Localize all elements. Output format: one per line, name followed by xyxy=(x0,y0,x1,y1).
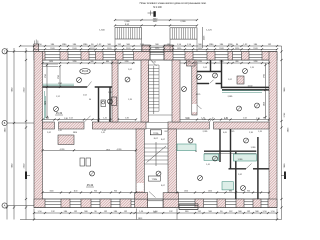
fixture small left xyxy=(80,158,85,166)
partition H right apt bath xyxy=(197,83,209,85)
bottom wall inner face xyxy=(43,198,270,200)
svg-text:1,125: 1,125 xyxy=(196,94,201,96)
svg-text:1520: 1520 xyxy=(90,48,94,50)
stair wall lower-left xyxy=(136,129,144,193)
flue block small top xyxy=(187,60,196,66)
chimney pier top-left xyxy=(34,44,39,52)
vent circle (184,89) xyxy=(182,87,187,92)
svg-text:3,130: 3,130 xyxy=(248,86,253,88)
svg-text:2762: 2762 xyxy=(45,74,47,78)
partition wall x192 xyxy=(192,60,197,115)
svg-text:1520: 1520 xyxy=(177,48,181,50)
svg-text:1280: 1280 xyxy=(254,61,258,63)
vent circle (215,158.5) xyxy=(213,156,218,161)
svg-text:2,80: 2,80 xyxy=(64,118,68,120)
kitchen counter teal upper-left xyxy=(43,85,74,87)
svg-text:3810: 3810 xyxy=(73,132,77,134)
svg-text:2420: 2420 xyxy=(45,101,47,105)
secondary top dim row xyxy=(34,48,277,50)
porch railing right xyxy=(170,28,197,39)
vent circle (245,71) xyxy=(243,69,248,74)
svg-text:880: 880 xyxy=(229,190,232,192)
interior dim row above bottom wall xyxy=(43,192,137,194)
svg-text:1490: 1490 xyxy=(49,61,53,63)
svg-text:1520: 1520 xyxy=(126,48,130,50)
svg-text:1520: 1520 xyxy=(235,48,239,50)
partition V lower right 3 xyxy=(257,137,259,199)
svg-text:1,380: 1,380 xyxy=(251,147,256,149)
bottom dim chain 1 xyxy=(34,212,277,214)
kitchen counter teal xyxy=(222,90,262,92)
door leaf entrance xyxy=(149,192,156,198)
door leaf left apt xyxy=(87,82,91,88)
svg-text:1520: 1520 xyxy=(107,48,111,50)
top wall piers xyxy=(34,52,45,61)
interior vertical dim right room xyxy=(265,63,267,119)
porch side stub left xyxy=(142,45,150,52)
partition V left apt 2 xyxy=(109,87,111,122)
vent circle (56,109) xyxy=(54,107,59,112)
vent circle (215,75.5) xyxy=(213,73,218,78)
axis circle А xyxy=(2,203,7,208)
svg-text:1,82: 1,82 xyxy=(125,118,129,120)
vent circle (158.5,173.5) xyxy=(156,171,161,176)
svg-text:4,330: 4,330 xyxy=(117,149,122,151)
svg-text:2762: 2762 xyxy=(58,75,60,79)
kitchen wall right apt xyxy=(222,86,269,88)
vent circle (199,77) xyxy=(197,75,202,80)
svg-text:1280: 1280 xyxy=(125,61,129,63)
svg-text:580: 580 xyxy=(188,61,191,63)
door leaf mid wall 2 xyxy=(210,117,214,122)
svg-text:90: 90 xyxy=(89,99,91,101)
svg-text:880: 880 xyxy=(106,61,109,63)
vent circle (200,178) xyxy=(198,176,203,181)
door leaf right apt bath xyxy=(210,80,214,84)
kitchen unit C xyxy=(233,154,256,161)
stair label box 2 xyxy=(148,176,160,181)
svg-text:1600: 1600 xyxy=(50,190,54,192)
svg-text:4,05: 4,05 xyxy=(223,132,227,134)
left dim chain outer xyxy=(6,48,8,220)
partition wall x112 xyxy=(112,60,118,122)
svg-text:1,26: 1,26 xyxy=(258,131,262,133)
interior dim row under top windows right xyxy=(180,62,269,64)
svg-text:ТП2Б: ТП2Б xyxy=(152,179,158,181)
svg-text:15,32: 15,32 xyxy=(56,112,63,115)
svg-text:1520: 1520 xyxy=(198,48,202,50)
axis circle Б xyxy=(2,120,7,125)
svg-text:300: 300 xyxy=(153,212,156,214)
svg-text:4,05: 4,05 xyxy=(224,118,228,120)
top wall outer face xyxy=(34,51,277,53)
svg-text:1,26: 1,26 xyxy=(128,99,132,101)
bottom wall windows xyxy=(45,201,61,203)
svg-text:207: 207 xyxy=(164,131,167,133)
stair label box 1 xyxy=(150,130,161,135)
svg-text:4,330: 4,330 xyxy=(60,149,65,151)
svg-text:1,500: 1,500 xyxy=(99,30,105,32)
svg-text:1520: 1520 xyxy=(219,48,223,50)
svg-text:2,52: 2,52 xyxy=(69,118,73,120)
svg-text:2,62: 2,62 xyxy=(58,130,62,132)
svg-text:1520: 1520 xyxy=(155,48,159,50)
porch platform lines between stubs xyxy=(150,46,164,48)
svg-text:1,41: 1,41 xyxy=(102,130,106,132)
partition V left apt 1 xyxy=(98,87,100,122)
svg-text:880: 880 xyxy=(236,61,239,63)
interior vertical dim left room xyxy=(59,66,61,87)
svg-text:8,07: 8,07 xyxy=(161,185,165,187)
svg-text:2420: 2420 xyxy=(263,102,265,106)
svg-text:М 1:100: М 1:100 xyxy=(153,7,162,9)
svg-text:2,980: 2,980 xyxy=(124,21,130,23)
porch edge lines xyxy=(114,39,116,52)
svg-text:580: 580 xyxy=(91,61,94,63)
vent circle (110,101.5) xyxy=(108,99,113,104)
svg-text:1280: 1280 xyxy=(198,61,202,63)
svg-text:2,36: 2,36 xyxy=(249,132,253,134)
fixture lower xyxy=(222,182,233,190)
svg-text:1520: 1520 xyxy=(50,48,54,50)
flue block right xyxy=(237,76,244,84)
partition H lower right xyxy=(204,150,256,152)
vent circle (190.5,140.5) xyxy=(188,138,193,143)
closet lines top-left xyxy=(43,63,59,65)
top wall inner face xyxy=(43,59,270,61)
svg-text:2,980: 2,980 xyxy=(180,21,186,23)
left dim chain inner xyxy=(25,48,27,220)
bottom dim chain 2 total xyxy=(20,219,282,221)
svg-text:2,02: 2,02 xyxy=(186,118,190,120)
entrance steps outside xyxy=(179,203,198,205)
svg-text:1100: 1100 xyxy=(74,190,78,192)
partition V lower right 4 xyxy=(235,152,237,199)
interior dim line lower-left room xyxy=(43,149,137,151)
door leaf mid wall 1 xyxy=(84,116,90,122)
flue block left-lower xyxy=(58,135,74,145)
porch dim line upper xyxy=(115,19,197,21)
kitchen unit B xyxy=(204,154,219,160)
svg-text:1280: 1280 xyxy=(73,61,77,63)
svg-text:План типового этажа жилого дом: План типового этажа жилого дома со встро… xyxy=(140,1,207,5)
svg-text:45,03: 45,03 xyxy=(82,70,89,73)
svg-text:2,02: 2,02 xyxy=(203,67,207,69)
right dim chain xyxy=(281,46,283,220)
svg-text:2,62: 2,62 xyxy=(238,174,242,176)
partition V right apt 1 xyxy=(221,60,223,89)
svg-text:90: 90 xyxy=(47,118,49,120)
vent circle (246,140.5) xyxy=(244,138,249,143)
toilet xyxy=(101,100,106,107)
svg-text:1,380: 1,380 xyxy=(238,159,243,161)
svg-text:2,62: 2,62 xyxy=(243,118,247,120)
svg-text:1,26: 1,26 xyxy=(250,67,254,69)
svg-text:2,62: 2,62 xyxy=(47,132,51,134)
porch dim line lower xyxy=(115,25,197,27)
kitchen unit A xyxy=(177,144,196,151)
left wall xyxy=(34,52,43,208)
svg-text:1,41: 1,41 xyxy=(206,164,210,166)
stair landing line xyxy=(149,114,173,116)
top dimension chain xyxy=(20,45,282,47)
porch vertical dim xyxy=(202,27,204,48)
mid wall dim row above xyxy=(43,119,137,121)
left dim chain mid xyxy=(13,48,15,220)
svg-text:1,41: 1,41 xyxy=(101,132,105,134)
section mark 1 bottom-right xyxy=(284,172,286,180)
interior vertical dim along left wall xyxy=(46,63,48,119)
door leaf right apt wall xyxy=(197,105,202,109)
svg-text:1,50: 1,50 xyxy=(152,62,156,64)
svg-text:1,525: 1,525 xyxy=(230,131,235,133)
svg-text:900: 900 xyxy=(114,190,117,192)
svg-text:45,42: 45,42 xyxy=(87,183,94,187)
svg-text:900: 900 xyxy=(247,190,250,192)
partition H left apt xyxy=(43,86,88,88)
svg-text:ТП2Б: ТП2Б xyxy=(153,133,159,135)
bottom wall piers xyxy=(34,199,45,208)
svg-text:1,41: 1,41 xyxy=(103,118,107,120)
interior dim row under top windows left xyxy=(43,62,136,64)
kitchen counter teal left wall xyxy=(43,91,45,120)
section mark 1 bottom-left xyxy=(26,172,31,176)
svg-text:1350: 1350 xyxy=(184,190,188,192)
vent circle (257,105.5) xyxy=(255,103,260,108)
partition V lower right 1 xyxy=(219,129,221,162)
svg-text:2762: 2762 xyxy=(263,74,265,78)
vent circle (79,80) xyxy=(77,78,82,83)
stair wall upper-left xyxy=(141,60,149,122)
svg-text:8,07: 8,07 xyxy=(161,139,165,141)
partition H right small xyxy=(197,71,222,73)
svg-text:1350: 1350 xyxy=(208,190,212,192)
vent circle (243,188) xyxy=(241,186,246,191)
section mark 1 top xyxy=(148,11,154,16)
porch side stub right xyxy=(164,45,173,52)
middle wall xyxy=(43,122,55,129)
svg-text:90: 90 xyxy=(195,151,197,153)
svg-text:1,125: 1,125 xyxy=(206,30,212,32)
partition V right small xyxy=(210,60,212,72)
vent circle (127.5,79.5) xyxy=(125,77,130,82)
svg-text:2,02: 2,02 xyxy=(128,69,132,71)
svg-text:1,52: 1,52 xyxy=(56,96,60,98)
stair wall upper-right xyxy=(172,60,180,122)
partition V lower right 2 xyxy=(230,129,232,169)
stair wall lower-right xyxy=(168,129,177,193)
entrance footing left xyxy=(135,193,148,199)
entrance footing right xyxy=(163,193,178,199)
door leaf lower right xyxy=(246,164,252,169)
stair upper flight xyxy=(149,64,160,66)
svg-text:1,41: 1,41 xyxy=(202,119,206,121)
svg-text:2762: 2762 xyxy=(58,83,62,85)
svg-text:900: 900 xyxy=(94,190,97,192)
svg-text:2,36: 2,36 xyxy=(256,118,260,120)
extension lines to bottom chains xyxy=(33,209,35,220)
top wall windows xyxy=(45,54,60,56)
porch railing left xyxy=(115,28,142,40)
svg-text:2,02: 2,02 xyxy=(83,95,87,97)
vent circle (92,173.5) xyxy=(90,171,95,176)
svg-text:1,02: 1,02 xyxy=(108,92,112,94)
bottom wall outer face xyxy=(34,207,277,209)
stair lower flight xyxy=(144,143,168,145)
svg-text:2,02: 2,02 xyxy=(228,79,232,81)
svg-text:2,885: 2,885 xyxy=(228,96,233,98)
door leaf top entrance xyxy=(151,60,157,66)
mid wall lines across stair corridor xyxy=(146,121,168,123)
svg-text:1520: 1520 xyxy=(253,48,257,50)
svg-text:1520: 1520 xyxy=(72,48,76,50)
washer fixture xyxy=(112,97,117,106)
right wall xyxy=(269,52,277,208)
vent circle (239,108.5) xyxy=(237,106,242,111)
axis circle Г xyxy=(2,49,7,54)
svg-text:2,285: 2,285 xyxy=(203,131,208,133)
svg-text:1280: 1280 xyxy=(220,61,224,63)
svg-text:2810: 2810 xyxy=(106,150,110,152)
partition H lower right 2 xyxy=(229,168,247,170)
stair lower break line xyxy=(147,146,167,163)
